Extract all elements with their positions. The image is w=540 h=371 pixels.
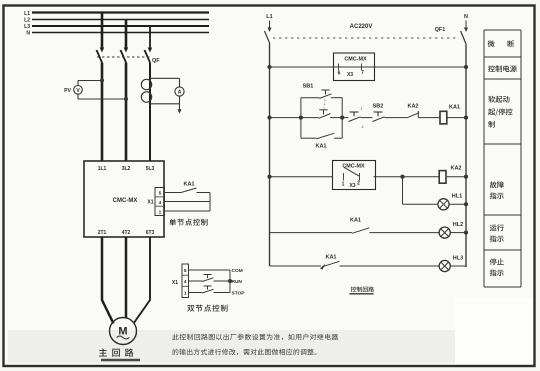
label control circuit: [351, 287, 374, 292]
svg-text:L2: L2: [24, 18, 30, 24]
breaker QF pole 2: [124, 48, 129, 53]
svg-text:6: 6: [338, 71, 341, 77]
svg-text:2: 2: [357, 181, 360, 187]
svg-text:A: A: [178, 90, 182, 96]
junction voltmeter L2: [124, 97, 128, 101]
pushbutton SB1 second contact: [301, 117, 319, 119]
junction voltmeter L1: [100, 78, 104, 82]
svg-text:COM: COM: [232, 268, 243, 274]
wire row2 a: [342, 117, 348, 119]
junction RUN: [228, 279, 232, 283]
wire HL1 branch: [402, 177, 404, 205]
soft starter U1 CMC-MX body: [84, 161, 164, 237]
svg-text:L1: L1: [24, 11, 30, 17]
wire row2 c: [385, 117, 408, 119]
svg-text:1: 1: [184, 290, 187, 296]
svg-text:QF1: QF1: [435, 27, 446, 33]
wire motor lead C: [134, 237, 151, 324]
wire control supply row: [270, 66, 467, 68]
legend fault indication: [490, 181, 504, 188]
svg-text:STOP: STOP: [232, 291, 246, 297]
wire row5: [270, 265, 322, 267]
svg-text:X3: X3: [347, 72, 353, 78]
svg-text:N: N: [464, 14, 468, 20]
svg-text:KA2: KA2: [450, 166, 461, 172]
breaker QF pole 1: [100, 48, 105, 53]
svg-text:QF: QF: [152, 58, 160, 64]
wire phase C drop: [149, 26, 151, 48]
svg-text:CMC-MX: CMC-MX: [113, 198, 138, 204]
relay coil KA1: [440, 111, 447, 124]
legend control power: [488, 65, 517, 72]
junction parallel left: [299, 116, 303, 120]
wire voltmeter top: [77, 81, 79, 86]
wire row2 e: [447, 117, 466, 119]
wire CT secondary top: [150, 77, 180, 79]
contact KA1 seal-in: [301, 137, 316, 139]
note line 1: [172, 334, 338, 341]
svg-text:PV: PV: [64, 88, 71, 94]
svg-text:KA1: KA1: [325, 255, 336, 261]
breaker linkage dashed: [273, 37, 456, 39]
wire phase C to starter: [149, 63, 151, 162]
svg-text:RUN: RUN: [232, 279, 243, 285]
wire motor lead A: [102, 237, 114, 324]
svg-text:SB1: SB1: [303, 84, 314, 90]
svg-text:1L1: 1L1: [98, 166, 107, 172]
starter fault contact box U1 X3b: [333, 161, 376, 190]
legend breaker: [488, 40, 495, 47]
lamp HL3: [439, 260, 450, 271]
junction parallel right: [340, 116, 344, 120]
wire X1 pin1: [165, 210, 211, 212]
breaker QF linkage: [97, 56, 152, 58]
lamp HL1: [438, 199, 449, 210]
motor M: [110, 318, 137, 345]
wire STOP: [189, 292, 203, 294]
note line 2: [173, 349, 317, 356]
ammeter PA: [175, 87, 184, 96]
svg-text:CMC-MX: CMC-MX: [344, 57, 367, 63]
svg-text:6T3: 6T3: [146, 230, 155, 236]
svg-text:5: 5: [159, 191, 162, 197]
wire CT secondary right: [179, 78, 181, 87]
voltmeter PV: [74, 86, 83, 95]
wire two-node vertical: [229, 270, 231, 293]
starter control power box U1 X3: [334, 53, 375, 81]
starter internal fault contact: [344, 167, 360, 176]
svg-text:X1: X1: [147, 200, 153, 206]
svg-text:L3: L3: [24, 24, 30, 30]
relay coil KA2: [439, 171, 446, 184]
svg-text:4: 4: [184, 279, 187, 285]
wire motor lead B: [125, 237, 128, 318]
label single-node control: [169, 219, 207, 226]
svg-text:KA1: KA1: [315, 144, 326, 150]
svg-text:X1: X1: [172, 280, 178, 286]
wire HL1 to rail: [449, 203, 466, 205]
left rail: [269, 44, 271, 267]
legend soft start control: [488, 96, 509, 103]
wire single-node loop: [197, 192, 211, 194]
breaker QF pole 3: [148, 48, 153, 53]
terminal strip X1: [155, 188, 165, 216]
svg-text:5L3: 5L3: [146, 166, 155, 172]
svg-text:SB2: SB2: [373, 104, 384, 110]
legend column frame: [483, 30, 485, 287]
wire phase A to starter: [101, 63, 104, 162]
svg-text:4T2: 4T2: [122, 230, 131, 236]
svg-text:KA1: KA1: [183, 182, 194, 188]
wire phase A drop: [101, 13, 104, 49]
svg-text:7: 7: [361, 70, 364, 76]
legend stop indication: [490, 258, 504, 265]
pushbutton RUN: [204, 274, 212, 276]
svg-text:5: 5: [184, 268, 187, 274]
label main circuit: [99, 348, 133, 356]
lamp HL2: [439, 227, 450, 238]
svg-text:4: 4: [159, 200, 162, 206]
wire phase B to starter: [125, 63, 128, 162]
svg-text:HL3: HL3: [453, 256, 463, 262]
parallel block frame: [300, 98, 302, 139]
svg-text:HL1: HL1: [452, 194, 462, 200]
svg-text:2T1: 2T1: [98, 230, 107, 236]
legend run indication: [490, 224, 504, 231]
svg-text:L1: L1: [266, 14, 272, 20]
label two-node control: [187, 305, 227, 312]
svg-text:KA1: KA1: [449, 105, 460, 111]
wire phase B drop: [125, 20, 128, 49]
svg-text:AC220V: AC220V: [350, 24, 373, 30]
terminal strip X1 two-node: [182, 264, 189, 298]
wire row2 b: [361, 117, 373, 119]
wire row3 right: [374, 176, 441, 178]
wire row3 left: [270, 176, 333, 178]
svg-text:1: 1: [159, 209, 162, 215]
wire row4: [270, 232, 353, 234]
wire row2 left: [270, 117, 301, 119]
svg-text:KA2: KA2: [407, 104, 418, 110]
wire X1 pin5: [165, 192, 182, 194]
CT ground arrow: [179, 104, 181, 110]
svg-text:HL2: HL2: [453, 222, 463, 228]
wire row3 e: [446, 176, 466, 178]
svg-text:3L2: 3L2: [122, 166, 131, 172]
svg-text:1: 1: [342, 182, 345, 188]
pushbutton STOP: [204, 285, 212, 287]
current transformer TA: [141, 79, 151, 89]
junction HL1 branch: [400, 175, 404, 179]
wire RUN: [189, 280, 203, 282]
wire row2 d: [418, 117, 440, 119]
svg-text:KA1: KA1: [350, 218, 361, 224]
SB1 linkage dashed: [324, 96, 326, 109]
wire X1 pin4: [165, 201, 211, 203]
wire CT secondary bottom: [150, 103, 180, 105]
svg-text:N: N: [26, 31, 30, 37]
stop button terminal 1: [350, 111, 359, 113]
switch control L1: [265, 31, 270, 44]
wire COM: [189, 269, 231, 271]
svg-text:X3: X3: [349, 183, 355, 189]
wire voltmeter bottom: [77, 94, 79, 99]
right rail: [465, 45, 467, 268]
